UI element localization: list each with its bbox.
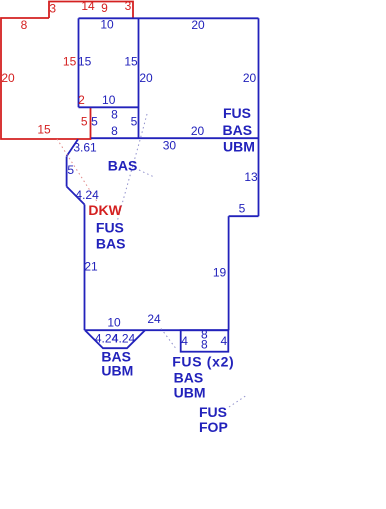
svg-text:10: 10	[107, 315, 121, 329]
dotted leader blue vertical long	[117, 114, 147, 222]
svg-text:15: 15	[124, 55, 138, 69]
big rect right wall	[258, 18, 260, 216]
svg-text:9: 9	[101, 1, 108, 15]
diagonal wall 4.24	[67, 187, 85, 205]
dotted leader red to DKW	[57, 139, 98, 203]
FUS x2 rect	[181, 330, 229, 352]
svg-text:3: 3	[125, 0, 132, 13]
svg-text:21: 21	[84, 259, 98, 273]
red section outline (left building part)	[1, 18, 91, 139]
svg-text:10: 10	[100, 18, 114, 32]
left short wall 5	[66, 157, 68, 187]
svg-text:19: 19	[213, 265, 227, 279]
svg-text:5: 5	[67, 163, 74, 177]
svg-text:13: 13	[244, 170, 258, 184]
svg-text:FUS: FUS	[223, 105, 251, 121]
svg-text:5: 5	[91, 114, 98, 128]
right step horizontal	[229, 215, 259, 217]
svg-text:24: 24	[147, 312, 161, 326]
svg-text:30: 30	[163, 138, 177, 152]
svg-text:15: 15	[78, 55, 92, 69]
svg-text:5: 5	[131, 114, 138, 128]
svg-text:4.24: 4.24	[112, 332, 136, 346]
svg-text:UBM: UBM	[174, 385, 206, 401]
dotted leader blue from BAS	[139, 170, 153, 177]
svg-text:8: 8	[201, 337, 208, 351]
svg-text:FUS: FUS	[96, 220, 124, 236]
svg-text:20: 20	[1, 71, 15, 85]
svg-text:5: 5	[81, 114, 88, 128]
svg-text:14: 14	[81, 0, 95, 13]
right lower wall vertical	[228, 216, 230, 330]
svg-text:20: 20	[191, 18, 205, 32]
svg-text:FUS (x2): FUS (x2)	[172, 353, 234, 369]
svg-text:8: 8	[111, 124, 118, 138]
svg-text:3: 3	[49, 2, 56, 16]
bottom wall	[85, 329, 229, 331]
middle long wall	[91, 137, 259, 139]
svg-text:15: 15	[63, 55, 77, 69]
svg-text:BAS: BAS	[108, 158, 138, 174]
blue top long wall	[79, 17, 259, 19]
svg-text:8: 8	[21, 18, 28, 32]
svg-text:DKW: DKW	[88, 202, 122, 218]
svg-text:2: 2	[78, 93, 85, 107]
svg-text:BAS: BAS	[223, 122, 253, 138]
diagonal wall 3.61	[67, 139, 78, 156]
svg-text:4: 4	[181, 334, 188, 348]
divider wall vertical	[138, 18, 140, 138]
svg-text:FUS: FUS	[199, 404, 227, 420]
left lower wall vertical	[84, 205, 86, 331]
svg-text:UBM: UBM	[223, 138, 255, 154]
inner rect bottom wall	[79, 106, 139, 108]
dotted leader blue to FUS x2	[161, 329, 177, 351]
inner rect left wall	[78, 18, 80, 107]
svg-text:UBM: UBM	[101, 362, 133, 378]
svg-text:FOP: FOP	[199, 419, 228, 435]
svg-text:4.24: 4.24	[75, 188, 99, 202]
trapezoid porch BAS UBM	[85, 330, 145, 348]
svg-text:20: 20	[243, 71, 257, 85]
svg-text:10: 10	[102, 93, 116, 107]
svg-text:BAS: BAS	[174, 370, 204, 386]
svg-text:15: 15	[37, 123, 51, 137]
svg-text:20: 20	[191, 124, 205, 138]
svg-text:BAS: BAS	[96, 236, 126, 252]
svg-text:8: 8	[111, 108, 118, 122]
svg-text:3.61: 3.61	[73, 140, 97, 154]
dotted leader blue near FUS FOP	[229, 395, 247, 407]
red section top step	[49, 2, 133, 19]
svg-text:5: 5	[239, 201, 246, 215]
svg-text:4: 4	[220, 334, 227, 348]
svg-text:20: 20	[139, 71, 153, 85]
